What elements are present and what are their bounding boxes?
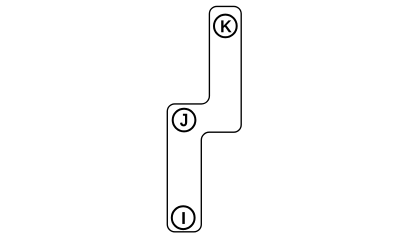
node K circle <box>214 15 237 38</box>
Z-shaped outline of two merged rounded bars <box>167 6 241 231</box>
label K <box>221 20 231 32</box>
label I <box>182 212 185 224</box>
node J circle <box>173 109 196 132</box>
label J <box>180 114 187 127</box>
node I circle <box>172 206 195 229</box>
